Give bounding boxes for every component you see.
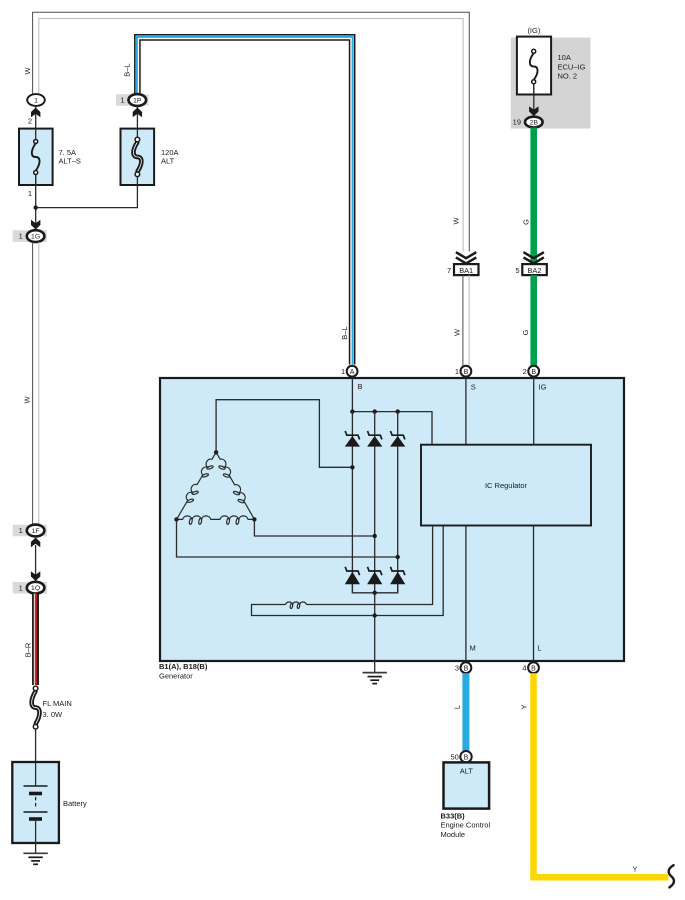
label B-R (24, 642, 33, 657)
svg-text:19: 19 (513, 118, 521, 127)
diode D5 (lower, column 2) (367, 567, 382, 585)
fuse 7.5A ALT-S (19, 129, 53, 185)
node stator phase 1 (top vertex) (214, 450, 218, 454)
label 10A ECU-IG NO.2 (558, 53, 586, 81)
label B-L (right) (340, 326, 349, 339)
wire G junction BA2 to generator pin IG (530, 275, 537, 365)
svg-text:IC Regulator: IC Regulator (485, 481, 528, 490)
svg-text:ECU–IG: ECU–IG (558, 62, 586, 71)
generator pin L (4) (522, 662, 538, 673)
svg-text:FL MAIN: FL MAIN (43, 699, 72, 708)
junction connector BA2 (515, 264, 546, 275)
svg-text:B: B (531, 665, 536, 672)
connector 1F (13, 525, 47, 537)
svg-text:W: W (23, 396, 32, 404)
connector 1G (13, 230, 47, 242)
wire IC regulator to pin L (533, 526, 535, 662)
terminal M label (470, 644, 476, 653)
label W (top-left wire) (23, 67, 32, 75)
arrow into connector 1Q (31, 571, 40, 581)
wire pin S to IC regulator (465, 377, 467, 445)
IC regulator U1 box (421, 445, 591, 526)
svg-text:IG: IG (539, 383, 547, 392)
ECM pin 50 (B) (450, 751, 471, 762)
battery plates and cells (24, 762, 48, 853)
ground under battery (23, 853, 47, 864)
pin 1 label of fuse ALT-S (28, 189, 32, 198)
svg-text:1: 1 (34, 97, 38, 104)
fuse 10A ECU-IG NO.2 (517, 37, 551, 95)
svg-text:(IG): (IG) (527, 26, 540, 35)
continuation squiggle on wire Y (669, 865, 674, 887)
wire rectifier column 3 (397, 412, 399, 593)
label W (right wire upper) (452, 217, 461, 225)
svg-text:W: W (452, 217, 461, 225)
rectifier negative bus (352, 584, 397, 593)
wire rectifier column 2 (374, 412, 376, 593)
wire fuse ECU-IG to connector 2B (533, 84, 535, 113)
svg-text:BA2: BA2 (528, 266, 542, 275)
label (IG) (527, 26, 540, 35)
label B-L (top) (123, 63, 132, 76)
label Battery (63, 799, 87, 808)
generator pin A (1) (341, 366, 357, 377)
node bus column 2 (373, 409, 377, 413)
node bus column 3 (396, 409, 400, 413)
wire rectifier column 1 (351, 412, 353, 593)
wire B-R connector 1Q to fusible link FL MAIN (34, 594, 35, 685)
wire fuse ALT-S to node under fuses (35, 174, 37, 229)
connector 2B (513, 117, 543, 128)
ground of generator (363, 673, 387, 684)
svg-text:2B: 2B (530, 120, 539, 127)
junction connector BA1 (447, 264, 478, 275)
svg-text:Y: Y (632, 865, 637, 874)
label G (lower) (521, 329, 530, 335)
svg-text:1: 1 (455, 367, 459, 376)
svg-text:1: 1 (28, 189, 32, 198)
wire negative bus to ground (374, 593, 376, 673)
arrow into connector 1G (31, 220, 40, 230)
svg-text:B–L: B–L (340, 326, 349, 339)
svg-text:Generator: Generator (159, 672, 193, 681)
diode D2 (upper, column 2) (367, 431, 382, 447)
svg-text:B1(A), B18(B): B1(A), B18(B) (159, 662, 208, 671)
wire field coil left leg (252, 526, 444, 616)
arrow into connector 2B (529, 106, 538, 116)
wire L generator pin M to ECM pin 50 (462, 673, 469, 751)
label L (blue wire) (453, 705, 462, 709)
diode D6 (lower, column 3) (390, 567, 405, 585)
label ALT inside ECM (460, 766, 474, 775)
connector 1 (fuse block cavity) (27, 94, 45, 106)
svg-text:1: 1 (19, 583, 23, 592)
node joining ALT-S and ALT fuses (34, 205, 38, 209)
svg-text:ALT–S: ALT–S (59, 157, 81, 166)
wire pin A to rectifier bus (351, 377, 353, 412)
node phase 1 tap on column 1 (350, 465, 354, 469)
ECM B33(B) box (444, 762, 490, 808)
label 7.5A ALT-S (59, 148, 81, 166)
svg-text:G: G (521, 329, 530, 335)
svg-text:G: G (522, 219, 531, 225)
svg-text:B: B (358, 382, 363, 391)
svg-text:B: B (464, 754, 469, 761)
svg-text:1Q: 1Q (31, 585, 40, 592)
node field coil return to ground (373, 613, 377, 617)
wire FL MAIN to battery (35, 730, 37, 764)
svg-text:2: 2 (28, 117, 32, 126)
label W (right wire lower) (453, 328, 462, 336)
wire W connector 1G to 1F (33, 242, 39, 525)
svg-text:B: B (464, 369, 469, 376)
svg-text:B: B (464, 665, 469, 672)
svg-text:Module: Module (441, 830, 466, 839)
svg-text:L: L (453, 705, 462, 709)
fuse 120A ALT (fusible link) (121, 129, 155, 185)
wire connector 1 to fuse ALT-S (35, 106, 37, 140)
rotor field coil L1 (286, 526, 433, 609)
wire pin IG to IC regulator (533, 377, 535, 445)
pin 2 label of fuse ALT-S (28, 117, 32, 126)
wire stator phase 3 to rectifier column 2 (254, 519, 374, 536)
label FL MAIN 3.0W (43, 699, 72, 719)
label Y (vertical) (520, 704, 529, 709)
svg-text:ALT: ALT (460, 766, 474, 775)
label Y (horizontal) (632, 865, 637, 874)
diode D4 (lower, column 1) (345, 567, 360, 585)
label IC Regulator (485, 481, 528, 490)
stator delta winding (177, 452, 255, 524)
label W (left wire) (23, 396, 32, 404)
connector 1Q (13, 582, 47, 594)
label B33(B) Engine Control Module (441, 811, 491, 839)
wire B-L connector 1P to generator pin A (black/cyan/white/black) (135, 35, 355, 365)
svg-text:B–R: B–R (24, 642, 33, 657)
arrow into connector 1 (31, 108, 40, 118)
svg-text:BA1: BA1 (459, 266, 473, 275)
svg-text:1: 1 (341, 367, 345, 376)
label G (upper) (522, 219, 531, 225)
battery B box (12, 762, 59, 843)
svg-text:L: L (538, 644, 542, 653)
svg-text:7: 7 (447, 266, 451, 275)
connector 1P (116, 94, 149, 106)
svg-text:B–L: B–L (123, 63, 132, 76)
svg-text:50: 50 (450, 752, 458, 761)
svg-text:B: B (531, 369, 536, 376)
svg-text:Engine Control: Engine Control (441, 821, 491, 830)
rectifier positive bus (352, 412, 432, 445)
diode D1 (upper, column 1) (345, 431, 360, 447)
wire Y generator pin L to page edge (534, 673, 669, 877)
svg-text:Y: Y (520, 704, 529, 709)
svg-text:3. 0W: 3. 0W (43, 710, 64, 719)
fusible link FL MAIN 3.0W (32, 686, 40, 729)
label 120A ALT (161, 148, 179, 166)
svg-text:1P: 1P (133, 97, 142, 104)
node bus column 1 (350, 409, 354, 413)
svg-text:NO. 2: NO. 2 (558, 72, 578, 81)
junction connector BA1 chevrons (456, 252, 476, 263)
svg-text:1: 1 (120, 96, 124, 105)
svg-text:W: W (23, 67, 32, 75)
svg-text:10A: 10A (558, 53, 571, 62)
svg-text:1F: 1F (32, 528, 40, 535)
generator B1(A) B18(B) box (160, 378, 624, 661)
wire G connector 2B to junction BA2 (530, 128, 537, 265)
svg-text:1G: 1G (31, 234, 40, 241)
wire node to fuse 120A ALT bottom (36, 174, 138, 208)
arrow into connector 1P (133, 108, 142, 118)
junction connector BA2 chevrons (524, 252, 544, 263)
arrow out of connector 1F (31, 538, 40, 548)
generator pin S (1) (455, 366, 471, 377)
wire stator phase 2 to rectifier column 3 (177, 519, 398, 557)
generator pin S terminal label (358, 382, 363, 391)
wire W junction BA1 to generator pin S (463, 275, 469, 365)
node stator phase 3 (bottom-right vertex) (252, 517, 256, 521)
wire between connectors 1F and 1Q (35, 545, 37, 575)
node phase 2 tap on column 3 (396, 555, 400, 559)
svg-text:B33(B): B33(B) (441, 811, 466, 820)
svg-text:Battery: Battery (63, 799, 87, 808)
wire stator phase 1 to rectifier column 1 (216, 400, 352, 468)
svg-text:M: M (470, 644, 476, 653)
gray block for ECU-IG fuse (511, 38, 591, 129)
svg-text:W: W (453, 328, 462, 336)
svg-text:4: 4 (522, 663, 526, 672)
terminal IG label (539, 383, 547, 392)
svg-text:A: A (350, 369, 355, 376)
terminal L label (538, 644, 542, 653)
node stator phase 2 (bottom-left vertex) (174, 517, 178, 521)
svg-text:ALT: ALT (161, 157, 175, 166)
terminal S label (471, 383, 476, 392)
svg-text:1: 1 (19, 526, 23, 535)
wire IC regulator to pin M (465, 526, 467, 662)
node negative bus (373, 591, 377, 595)
svg-text:S: S (471, 383, 476, 392)
svg-text:1: 1 (19, 232, 23, 241)
wire connector 1P to fuse 120A ALT (136, 106, 138, 140)
svg-text:2: 2 (523, 367, 527, 376)
svg-text:3: 3 (455, 663, 459, 672)
generator pin IG (2) (523, 366, 539, 377)
wire W from connector 1 across top to junction connector BA1 (33, 12, 470, 251)
generator pin M (3) (455, 662, 471, 673)
diode D3 (upper, column 3) (390, 431, 405, 447)
svg-text:5: 5 (515, 266, 519, 275)
node phase 3 tap on column 2 (373, 534, 377, 538)
label B1(A), B18(B) Generator (159, 662, 208, 681)
